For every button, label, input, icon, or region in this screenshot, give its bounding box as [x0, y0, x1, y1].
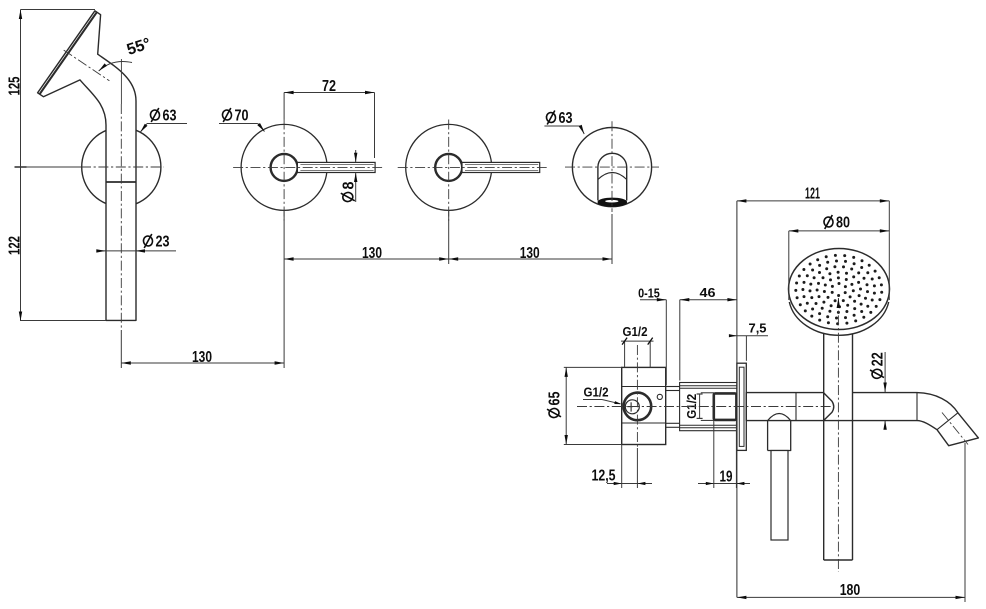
svg-text:121: 121	[805, 186, 820, 203]
dimension Ø22	[870, 352, 887, 430]
dimension 121	[737, 186, 889, 233]
dimension 125	[7, 10, 27, 168]
svg-text:G1/2: G1/2	[623, 325, 648, 339]
escutcheon Ø70 (element 3)	[406, 124, 492, 210]
extension sleeve	[680, 383, 737, 431]
chain dimension 130/130	[284, 211, 612, 264]
hand shower head face Ø80	[789, 249, 890, 336]
dimension 19	[698, 421, 750, 488]
svg-text:23: 23	[156, 234, 170, 251]
dimension 130 (el1-el2)	[121, 211, 284, 368]
svg-text:72: 72	[322, 78, 336, 95]
wall escutcheon plate	[737, 363, 746, 450]
handle stem (element 2)	[271, 154, 298, 181]
threaded socket	[714, 393, 737, 420]
dimension 46	[680, 286, 737, 302]
centerline: head axis	[64, 50, 110, 81]
svg-text:63: 63	[163, 108, 177, 125]
svg-text:80: 80	[836, 215, 850, 232]
extension lines 125/122	[21, 10, 107, 321]
small screw circle	[657, 394, 662, 399]
label G1/2 sleeve rotated	[685, 394, 702, 419]
centerlines (element 3)	[398, 120, 547, 221]
svg-text:12,5: 12,5	[592, 468, 616, 485]
svg-text:180: 180	[840, 582, 861, 599]
connection stubs	[666, 387, 680, 428]
svg-text:130: 130	[192, 349, 212, 366]
dimension 7,5	[729, 321, 768, 360]
dimension G1/2 top port	[621, 325, 654, 368]
centerline: escutcheon horizontal	[81, 166, 164, 168]
svg-text:22: 22	[870, 352, 887, 366]
dimension 122	[7, 167, 24, 321]
spray nozzle dots	[794, 254, 883, 325]
dimension Ø80	[789, 215, 890, 300]
svg-text:19: 19	[720, 469, 733, 486]
svg-text:63: 63	[559, 110, 573, 127]
hose nipple rod	[771, 451, 788, 541]
svg-text:70: 70	[235, 108, 249, 125]
svg-text:46: 46	[700, 286, 716, 300]
valve + spout centerlines	[577, 345, 834, 448]
svg-text:130: 130	[362, 245, 382, 262]
valve inlet port G1/2 circle	[624, 393, 652, 421]
handle lever (element 2)	[297, 162, 375, 172]
tube joint line	[106, 181, 136, 183]
centerlines (element 2)	[233, 120, 382, 221]
hand shower handle in holder	[824, 333, 853, 560]
dimension 12,5	[592, 445, 653, 489]
label Ø23 tube	[96, 234, 176, 253]
label G1/2 valve inlet	[583, 385, 622, 404]
escutcheon Ø63 (element 4)	[572, 128, 651, 207]
svg-text:130: 130	[520, 245, 540, 262]
centerlines (element 4)	[565, 121, 659, 212]
outlet elbow tube	[598, 153, 627, 200]
dimension 180	[737, 443, 965, 602]
handle stem (element 3)	[435, 154, 462, 181]
label Ø70	[219, 108, 265, 132]
svg-text:122: 122	[7, 236, 24, 255]
head centerline + arrow	[837, 298, 841, 572]
svg-text:0-15: 0-15	[638, 286, 660, 300]
label Ø63 element 1	[140, 108, 187, 133]
spout tube right + curved end	[824, 393, 979, 446]
svg-text:G1/2: G1/2	[584, 385, 609, 399]
spout body tube with bullet nose	[746, 393, 833, 421]
svg-text:7,5: 7,5	[749, 321, 767, 335]
svg-text:125: 125	[7, 76, 24, 95]
hand shower handle + head (side view, tilted 55°)	[38, 11, 136, 321]
hose outlet dome	[768, 414, 792, 451]
dimension 72	[284, 78, 374, 158]
wall surface line	[736, 201, 738, 598]
spout end centerline	[942, 413, 968, 445]
svg-text:8: 8	[341, 181, 358, 189]
outlet opening dark ellipse	[598, 198, 626, 206]
escutcheon Ø63 (element 1)	[82, 127, 161, 206]
dimension Ø65	[547, 367, 622, 444]
escutcheon Ø70 (element 2)	[241, 124, 327, 210]
dimension Ø8	[341, 150, 358, 202]
label Ø63 element 4	[544, 110, 584, 134]
svg-text:65: 65	[547, 391, 564, 405]
dimension 0-15	[638, 286, 680, 385]
centerline: vertical tube	[120, 59, 122, 330]
dimension 55°	[99, 35, 153, 71]
handle lever (element 3)	[462, 162, 540, 172]
concealed valve body	[622, 367, 666, 444]
